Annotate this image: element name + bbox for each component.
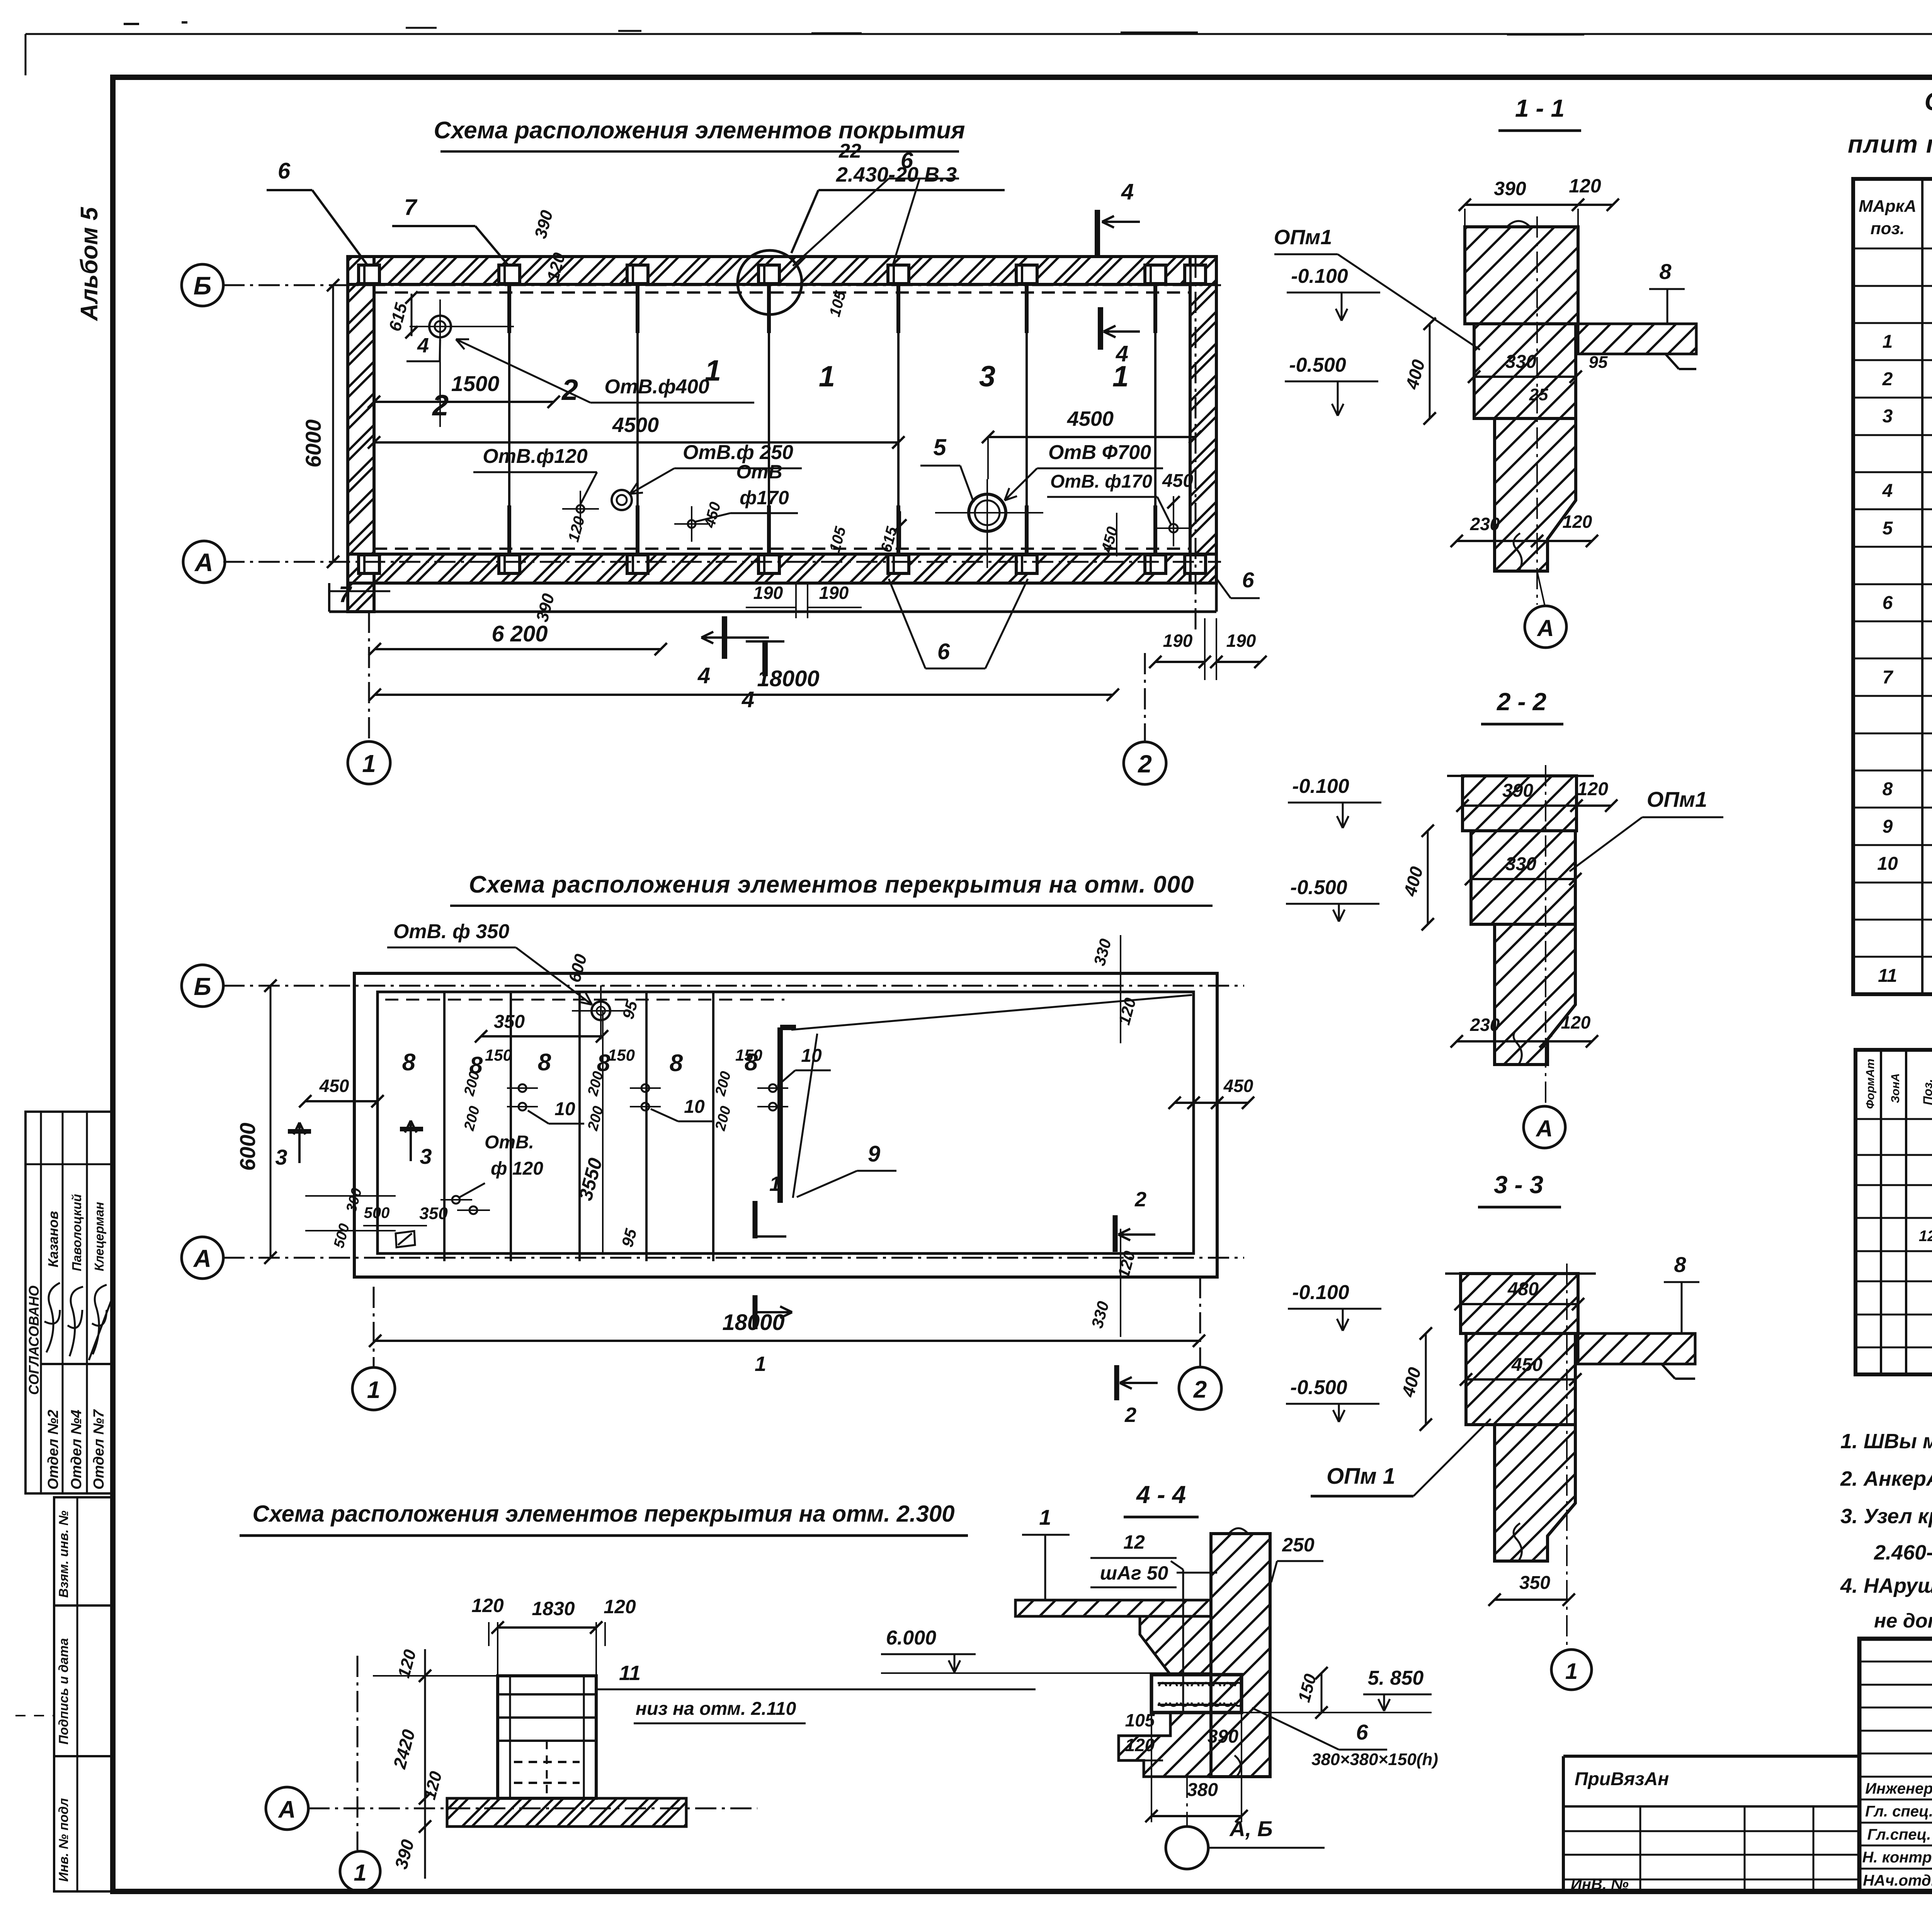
axis circle 1 — [348, 742, 390, 784]
svg-text:-0.500: -0.500 — [1290, 876, 1347, 899]
svg-text:12: 12 — [1123, 1531, 1145, 1553]
dim 6000 vertical — [332, 285, 334, 562]
svg-text:-0.500: -0.500 — [1290, 1376, 1347, 1399]
svg-text:1: 1 — [755, 1352, 766, 1376]
svg-text:НАч.отд.: НАч.отд. — [1863, 1872, 1932, 1889]
Привязан sub-table — [1563, 1755, 1859, 1758]
svg-text:А: А — [278, 1796, 296, 1823]
svg-text:190: 190 — [1163, 631, 1193, 651]
svg-text:190: 190 — [819, 583, 849, 603]
svg-text:ПриВязАн: ПриВязАн — [1575, 1769, 1669, 1789]
svg-text:6: 6 — [1242, 568, 1254, 592]
top plan: bottom wall (hatched) — [348, 554, 1216, 583]
section cut 4 lower — [722, 616, 727, 659]
section cut 4 lower second bar — [762, 641, 768, 676]
Пм1 table grid — [1855, 1050, 1932, 1374]
svg-text:плит перекрытия и покрытия.: плит перекрытия и покрытия. — [1848, 130, 1932, 158]
svg-text:Отдел №7: Отдел №7 — [91, 1409, 107, 1490]
mid plan element 9 thick line — [777, 1027, 783, 1203]
axis circle 2 — [1124, 742, 1166, 784]
svg-text:2: 2 — [561, 374, 578, 406]
svg-text:А: А — [194, 548, 213, 577]
svg-text:4 - 4: 4 - 4 — [1136, 1481, 1186, 1509]
mid plan small quad symbol — [396, 1231, 415, 1247]
svg-text:шАг 50: шАг 50 — [1100, 1562, 1168, 1584]
base slab hatched bottom plan — [447, 1798, 686, 1827]
svg-text:4500: 4500 — [612, 413, 659, 437]
s22 dim 330 — [1471, 878, 1575, 880]
svg-text:1830: 1830 — [532, 1598, 575, 1619]
svg-text:Подпись и дата: Подпись и дата — [56, 1638, 71, 1745]
s33 axis circle 1 — [1551, 1650, 1592, 1690]
svg-text:330: 330 — [1505, 854, 1536, 874]
svg-text:не допускАется. ПриВязкА отВ.: не допускАется. ПриВязкА отВ. ф120 уточн… — [1874, 1610, 1932, 1632]
svg-text:ОПм 1: ОПм 1 — [1327, 1464, 1395, 1489]
svg-text:6.000: 6.000 — [886, 1627, 936, 1649]
svg-text:230: 230 — [1470, 514, 1500, 534]
svg-text:7: 7 — [404, 195, 418, 220]
svg-text:Клецерман: Клецерман — [92, 1202, 106, 1271]
s33 wall top hatched — [1461, 1274, 1578, 1333]
s44 bottom squiggle — [1235, 1755, 1241, 1777]
svg-text:ОПм1: ОПм1 — [1647, 787, 1707, 811]
dim 18000 mid — [375, 1340, 1199, 1342]
svg-text:350: 350 — [1519, 1573, 1550, 1593]
svg-text:4. НАрушение ребер плит при пр: 4. НАрушение ребер плит при пробиВке отВ… — [1840, 1574, 1932, 1597]
s44 wall hatched — [1211, 1534, 1270, 1777]
top plan: lower outer edge line — [329, 611, 1216, 613]
axis circle Б — [182, 264, 223, 306]
left vertical dims bottom plan — [424, 1649, 426, 1879]
s44 slab hatched — [1015, 1600, 1211, 1616]
svg-text:ф170: ф170 — [740, 487, 789, 509]
svg-text:450: 450 — [1511, 1355, 1543, 1375]
svg-text:120: 120 — [1569, 175, 1601, 197]
axis circle 1 bottom — [340, 1851, 380, 1891]
s44 haunch — [1140, 1616, 1211, 1675]
s22 axis circle А — [1524, 1106, 1565, 1148]
svg-text:Гл. спец.: Гл. спец. — [1865, 1803, 1932, 1820]
svg-text:Инв. № подл: Инв. № подл — [56, 1798, 71, 1882]
svg-text:2: 2 — [1193, 1376, 1207, 1403]
svg-text:1: 1 — [705, 354, 721, 387]
svg-text:4: 4 — [417, 334, 429, 357]
mid plan plate dashed edges — [385, 999, 784, 1001]
svg-text:2: 2 — [1134, 1188, 1146, 1211]
grid axis 2 vertical line — [1195, 257, 1197, 630]
svg-text:8: 8 — [1659, 259, 1672, 284]
svg-text:Альбом 5: Альбом 5 — [76, 206, 103, 321]
hole Отв Ф700 — [969, 494, 1006, 531]
svg-text:А: А — [1535, 1116, 1553, 1141]
s33 slab right — [1578, 1333, 1695, 1364]
top plan: anchor marks MC23 bottom row — [359, 555, 379, 573]
s44 foundation hatched below plate — [1119, 1713, 1211, 1777]
svg-text:5: 5 — [1883, 518, 1893, 539]
svg-text:1: 1 — [367, 1377, 380, 1403]
svg-text:8: 8 — [402, 1049, 416, 1076]
svg-text:500: 500 — [364, 1204, 390, 1221]
top plan: plate edge dashed lines — [374, 291, 1190, 294]
svg-text:450: 450 — [1223, 1076, 1253, 1096]
svg-text:СОГЛАСОВАНО: СОГЛАСОВАНО — [26, 1286, 42, 1395]
cut mark 2 below plan — [1114, 1365, 1119, 1400]
svg-text:150: 150 — [485, 1046, 512, 1064]
svg-text:7: 7 — [1883, 667, 1894, 688]
svg-text:1: 1 — [1112, 360, 1129, 393]
svg-text:4: 4 — [1882, 481, 1893, 501]
s33 dim 400 — [1425, 1333, 1427, 1425]
svg-text:6: 6 — [278, 158, 291, 184]
svg-text:3: 3 — [979, 360, 995, 393]
grid axis 2 mid — [1199, 1277, 1201, 1367]
svg-text:95: 95 — [1589, 353, 1608, 372]
svg-text:2.430-20 В.3: 2.430-20 В.3 — [836, 163, 957, 186]
svg-text:А: А — [193, 1245, 211, 1272]
top plan: plate joint lines — [508, 284, 510, 554]
axis circle А bottom — [266, 1787, 308, 1830]
svg-text:ОтВ.: ОтВ. — [485, 1132, 534, 1153]
dim 6200 — [375, 648, 661, 650]
svg-text:11: 11 — [1878, 966, 1897, 986]
s33 dim 450 — [1466, 1378, 1575, 1381]
grid axis А dash-dot line — [223, 561, 1221, 563]
svg-text:1: 1 — [1039, 1505, 1051, 1529]
cut mark 1 inside — [753, 1201, 758, 1238]
svg-text:120: 120 — [471, 1595, 504, 1616]
svg-text:ФормАт: ФормАт — [1864, 1059, 1877, 1109]
cut mark 2 inside — [1113, 1215, 1118, 1252]
s11 centre axis — [1536, 216, 1538, 605]
label 11 and note — [597, 1689, 1036, 1690]
s11 ОПм1 block hatched — [1474, 324, 1576, 418]
big specification table grid — [1853, 179, 1932, 994]
embed plates 10 cluster 2 — [641, 1084, 649, 1092]
hole Отв.ф250 — [612, 490, 632, 510]
svg-text:6: 6 — [937, 639, 950, 664]
svg-text:Казанов: Казанов — [45, 1211, 61, 1267]
axis А dash-dot — [223, 1257, 1244, 1259]
svg-text:поз.: поз. — [1871, 219, 1905, 238]
s11 slab right — [1578, 324, 1696, 354]
svg-text:1: 1 — [1565, 1659, 1578, 1684]
margin box Инв. № подл — [54, 1756, 111, 1891]
svg-text:150: 150 — [608, 1046, 635, 1064]
svg-text:-0.100: -0.100 — [1292, 775, 1349, 798]
s22 lower column hatched — [1495, 924, 1575, 1065]
svg-text:120: 120 — [1577, 779, 1608, 799]
svg-text:4: 4 — [742, 687, 754, 712]
s33 lower column hatched — [1495, 1425, 1575, 1561]
svg-text:120: 120 — [1561, 1012, 1591, 1032]
svg-text:450: 450 — [319, 1076, 349, 1096]
cut mark 3 left — [288, 1129, 311, 1134]
svg-text:11: 11 — [619, 1662, 641, 1685]
svg-text:350: 350 — [419, 1204, 448, 1223]
axis circle Б mid — [182, 965, 223, 1007]
svg-text:22: 22 — [838, 140, 861, 162]
svg-text:МАркА: МАркА — [1859, 197, 1916, 216]
scan artifacts top — [124, 23, 139, 25]
s22 ОПм1 block hatched — [1471, 831, 1575, 924]
grid 1 vertical bottom — [357, 1656, 359, 1850]
s11 dim 230 120 — [1457, 540, 1592, 542]
s22 dim 400 — [1427, 831, 1429, 924]
svg-text:ОтВ. ф170: ОтВ. ф170 — [1050, 471, 1152, 492]
top plan: anchor pins bottom — [507, 505, 511, 573]
axis circle А mid — [182, 1237, 223, 1279]
svg-text:ОтВ: ОтВ — [736, 461, 782, 483]
approval signatures — [44, 1283, 60, 1352]
svg-text:12: 12 — [1919, 1228, 1932, 1245]
svg-text:10: 10 — [684, 1097, 705, 1117]
svg-text:9: 9 — [1883, 816, 1893, 837]
s44 rebar vertical — [1182, 1570, 1184, 1712]
svg-text:2: 2 — [1882, 369, 1893, 389]
s33 ОПм1 block hatched — [1466, 1333, 1575, 1425]
svg-text:8: 8 — [670, 1050, 683, 1077]
svg-text:380: 380 — [1187, 1780, 1218, 1800]
svg-text:230: 230 — [1470, 1015, 1500, 1035]
svg-text:1: 1 — [819, 360, 835, 393]
svg-text:480: 480 — [1507, 1279, 1539, 1299]
s44 dim 150 — [1321, 1673, 1323, 1713]
s22 centre axis — [1545, 765, 1546, 1106]
dim 350 under hole — [481, 1035, 602, 1037]
svg-text:1 - 1: 1 - 1 — [1515, 94, 1565, 122]
s44 dim 380 — [1151, 1713, 1152, 1822]
svg-text:Поз.: Поз. — [1921, 1079, 1932, 1105]
svg-text:190: 190 — [753, 583, 783, 603]
mid plan inner rect — [378, 992, 1194, 1253]
svg-text:Отдел №4: Отдел №4 — [68, 1410, 85, 1490]
approval table СОГЛАСОВАНО — [26, 1112, 111, 1493]
axis Б dash-dot — [223, 985, 1244, 987]
axis circle 1 mid — [352, 1367, 395, 1410]
s33 dim 350 — [1495, 1599, 1569, 1601]
svg-text:3: 3 — [420, 1144, 432, 1168]
svg-text:4: 4 — [1121, 179, 1134, 204]
scan sheet left edge line — [25, 34, 27, 75]
embed plates 10 cluster 3 — [769, 1084, 777, 1092]
svg-text:А: А — [1536, 615, 1554, 641]
top plan: anchor marks MC23 top row — [359, 265, 379, 284]
svg-text:ОтВ. ф 350: ОтВ. ф 350 — [393, 920, 509, 943]
dim 4500 right — [988, 436, 1195, 438]
svg-text:-0.100: -0.100 — [1291, 265, 1348, 287]
margin box Взам. инв. № — [54, 1497, 111, 1605]
mid plan outer wall rect — [354, 973, 1217, 1277]
svg-text:8: 8 — [1674, 1252, 1686, 1277]
svg-text:Схема расположения элементов п: Схема расположения элементов перекрытия … — [252, 1501, 954, 1527]
svg-text:3: 3 — [275, 1145, 287, 1169]
svg-text:330: 330 — [1505, 352, 1536, 372]
dim 1500 — [374, 401, 554, 403]
section cut 4 upper — [1095, 210, 1100, 257]
svg-text:8: 8 — [1883, 779, 1893, 799]
svg-text:150: 150 — [735, 1046, 762, 1064]
axis А line bottom — [308, 1808, 757, 1810]
svg-text:1500: 1500 — [451, 371, 500, 396]
svg-text:Н. контр.: Н. контр. — [1862, 1849, 1932, 1866]
svg-text:Спецификация к схемам распо: Спецификация к схемам расположения элеме… — [1925, 87, 1932, 116]
s33 dim 480 — [1461, 1303, 1578, 1305]
grid axis Б dash-dot line — [223, 284, 1221, 286]
svg-text:2. АнкерА (поз.7) зАщитить об: 2. АнкерА (поз.7) зАщитить обмАзкой цеме… — [1840, 1467, 1932, 1490]
svg-text:2: 2 — [1124, 1403, 1136, 1427]
s22 dim 230 120 — [1457, 1040, 1592, 1043]
s22 dim 390 120 — [1463, 804, 1611, 807]
svg-text:3 - 3: 3 - 3 — [1494, 1171, 1543, 1199]
top plan: anchor pins top — [507, 266, 511, 333]
s44 axis circle А,Б — [1166, 1827, 1208, 1869]
svg-text:Схема расположения элементов: Схема расположения элементов перекрытия … — [469, 871, 1194, 898]
svg-text:ЗонА: ЗонА — [1889, 1073, 1902, 1103]
dim 450 right mid — [1175, 1102, 1248, 1104]
axis circle 2 mid — [1179, 1367, 1221, 1410]
svg-text:6: 6 — [1356, 1720, 1368, 1744]
svg-text:8: 8 — [538, 1049, 551, 1076]
top plan: left wall (hatched) — [348, 257, 374, 612]
svg-text:380×380×150(h): 380×380×150(h) — [1311, 1750, 1438, 1769]
svg-text:190: 190 — [1226, 631, 1256, 651]
grid axis 1 mid — [373, 1287, 375, 1367]
svg-text:Отдел №2: Отдел №2 — [45, 1410, 61, 1490]
svg-text:А, Б: А, Б — [1229, 1816, 1272, 1841]
dim 615 vertical — [411, 294, 413, 336]
dim 6000 mid vertical — [270, 986, 272, 1258]
hole Отв ф170 left — [688, 520, 696, 528]
fold mark dash line — [15, 1715, 54, 1716]
svg-text:1: 1 — [1883, 332, 1893, 352]
title block outer — [1859, 1639, 1932, 1891]
cut mark 3 second — [400, 1127, 423, 1131]
svg-text:ОтВ.ф 250: ОтВ.ф 250 — [683, 441, 793, 464]
svg-text:Взям. инв. №: Взям. инв. № — [56, 1510, 71, 1598]
svg-text:4500: 4500 — [1067, 407, 1114, 430]
s22 wall top hatched — [1463, 776, 1577, 831]
svg-text:2: 2 — [432, 389, 449, 422]
svg-text:3: 3 — [1883, 406, 1893, 427]
s11 dim 330 95 25 — [1474, 376, 1576, 378]
svg-text:низ на отм. 2.110: низ на отм. 2.110 — [636, 1699, 796, 1719]
s33 centre axis — [1566, 1264, 1568, 1647]
s11 dim 400 — [1429, 324, 1431, 418]
svg-text:7: 7 — [339, 582, 352, 607]
section cut 4 mid — [1098, 307, 1103, 350]
svg-text:120: 120 — [604, 1596, 636, 1617]
svg-text:6000: 6000 — [301, 419, 325, 468]
svg-text:Схема расположения элементов: Схема расположения элементов покрытия — [434, 117, 965, 144]
svg-text:Б: Б — [194, 271, 212, 300]
s11 axis circle А — [1525, 606, 1566, 648]
svg-text:6000: 6000 — [235, 1122, 260, 1171]
svg-text:6 200: 6 200 — [492, 621, 548, 646]
svg-text:250: 250 — [1282, 1534, 1315, 1556]
svg-text:350: 350 — [494, 1012, 525, 1032]
svg-text:ф 120: ф 120 — [491, 1158, 543, 1179]
svg-text:6: 6 — [1883, 593, 1893, 613]
svg-text:10: 10 — [1877, 854, 1898, 874]
svg-text:Б: Б — [194, 973, 211, 1000]
top plan: right wall (hatched) — [1190, 257, 1216, 583]
mid plan plate joints — [443, 992, 446, 1261]
svg-text:4: 4 — [697, 663, 710, 688]
hole Отв.ф120 — [577, 505, 584, 513]
embed plates 10 cluster 1 — [519, 1084, 526, 1092]
svg-text:390: 390 — [1502, 781, 1533, 801]
s44 embedded plate Пм1 — [1151, 1675, 1242, 1713]
svg-text:10: 10 — [554, 1099, 575, 1119]
dim 18000 — [375, 694, 1113, 696]
svg-text:1: 1 — [769, 1172, 781, 1196]
svg-text:9: 9 — [868, 1141, 880, 1167]
svg-text:390: 390 — [1494, 178, 1526, 199]
s11 lower column hatched — [1495, 418, 1576, 571]
cut mark 1 below plan — [753, 1295, 758, 1329]
svg-text:1: 1 — [354, 1860, 366, 1886]
margin box Подпись и дата — [54, 1605, 111, 1756]
svg-text:25: 25 — [1529, 385, 1548, 404]
svg-text:10: 10 — [801, 1046, 822, 1066]
svg-text:Гл.спец.: Гл.спец. — [1867, 1826, 1931, 1843]
svg-text:ИнВ. №: ИнВ. № — [1571, 1876, 1629, 1893]
svg-text:ОтВ.ф120: ОтВ.ф120 — [483, 445, 588, 468]
s11 wall top hatched — [1465, 227, 1578, 324]
title block left rows — [1859, 1661, 1932, 1663]
svg-text:5. 850: 5. 850 — [1368, 1667, 1424, 1689]
grid axis 1 vertical line — [368, 612, 370, 742]
mid plan leader slant lines — [791, 995, 1192, 1030]
svg-text:Паволоцкий: Паволоцкий — [70, 1194, 84, 1271]
svg-text:2: 2 — [1138, 750, 1152, 778]
svg-text:1: 1 — [362, 750, 376, 777]
lintel stack element — [498, 1676, 596, 1798]
svg-text:ОтВ Ф700: ОтВ Ф700 — [1048, 441, 1151, 464]
svg-text:-0.500: -0.500 — [1289, 354, 1346, 376]
svg-text:-0.100: -0.100 — [1292, 1281, 1349, 1304]
svg-text:ОПм1: ОПм1 — [1274, 226, 1332, 249]
svg-text:120: 120 — [1563, 512, 1592, 532]
svg-text:3. Узел крепления стАкАноВ к п: 3. Узел крепления стАкАноВ к плитАм покр… — [1840, 1505, 1932, 1528]
hole Отв.ф400 — [429, 316, 451, 337]
svg-text:5: 5 — [933, 434, 947, 460]
svg-text:450: 450 — [1162, 471, 1193, 491]
axis circle А — [183, 541, 225, 583]
top plan: top wall (hatched) — [348, 257, 1216, 284]
hole Отв.ф170 right — [1169, 524, 1178, 532]
svg-text:2 - 2: 2 - 2 — [1497, 688, 1546, 716]
scan sheet top edge line — [26, 33, 1932, 35]
top plan: node detail circle 22 — [738, 250, 802, 315]
svg-text:2.460- 14 В. О.: 2.460- 14 В. О. — [1874, 1541, 1932, 1564]
svg-text:Инженер: Инженер — [1865, 1780, 1932, 1797]
svg-text:1. ШВы между плитАми зАполняют: 1. ШВы между плитАми зАполняются цементн… — [1840, 1430, 1932, 1453]
svg-text:ОтВ.ф400: ОтВ.ф400 — [604, 376, 709, 398]
dim 450 left mid — [305, 1100, 378, 1102]
dim 4500 left — [374, 441, 898, 444]
